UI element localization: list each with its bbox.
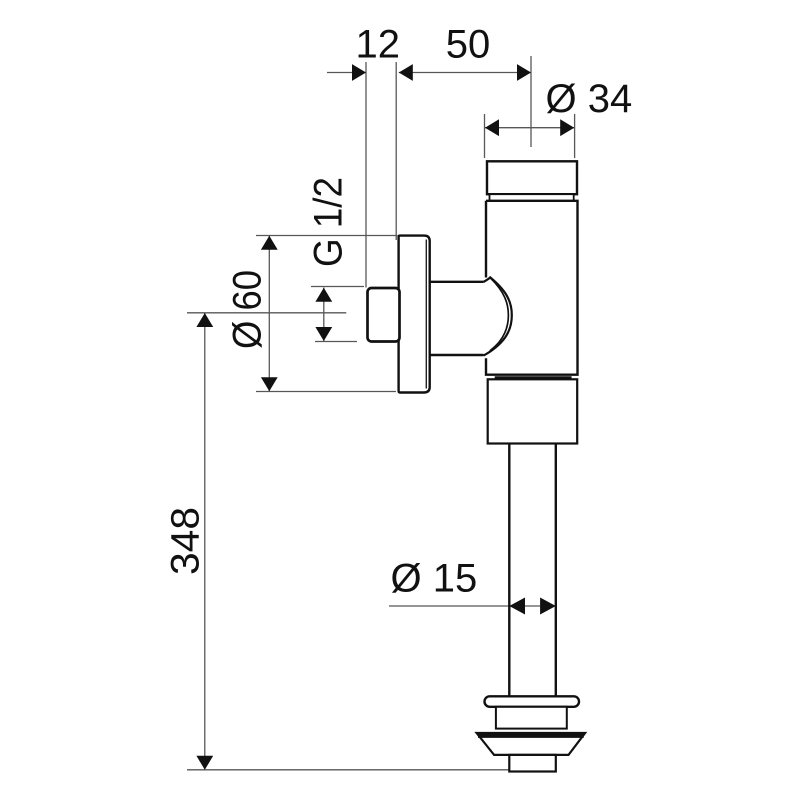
wall rosette xyxy=(399,236,430,393)
rosette face inner line xyxy=(425,240,427,389)
G 1/2 nut xyxy=(368,288,400,342)
svg-text:Ø 34: Ø 34 xyxy=(546,77,633,121)
valve lower body xyxy=(488,379,578,443)
valve top cap xyxy=(487,161,577,194)
top dimension line 12/50 xyxy=(327,72,366,74)
extension line 50 pipe centerline xyxy=(530,56,532,147)
arrow G12 up xyxy=(315,288,332,302)
arrow G12 down xyxy=(315,327,332,341)
leader line dia15 xyxy=(389,605,554,607)
arrow 348 down xyxy=(196,756,213,770)
extension line dia34 left xyxy=(484,114,486,158)
svg-text:Ø 15: Ø 15 xyxy=(391,557,478,601)
arrow dia34 right xyxy=(560,119,574,136)
inlet pipe top edge xyxy=(430,281,484,283)
svg-text:Ø 60: Ø 60 xyxy=(226,270,270,349)
extension line dia34 right xyxy=(574,114,576,158)
dimension line G12 xyxy=(323,288,325,342)
arrows (solid black) xyxy=(196,64,574,770)
lower flange dark band xyxy=(478,734,584,738)
arrow dia60 down xyxy=(261,377,278,391)
valve main body fill xyxy=(486,201,578,375)
inlet pipe bottom edge xyxy=(430,354,484,356)
extension line 348 bottom xyxy=(187,769,510,771)
dimension line 348 xyxy=(204,313,206,770)
arrow 12 left pointing right xyxy=(352,64,366,81)
dimension lines (thin gray) xyxy=(187,56,575,770)
arrow dia34 left xyxy=(485,119,499,136)
extension line 348 top inlet centerline xyxy=(187,312,346,314)
svg-text:G 1/2: G 1/2 xyxy=(307,177,351,267)
bottom stub xyxy=(509,755,556,772)
lower flange trapezoid xyxy=(477,733,585,755)
dimension line dia34 xyxy=(485,127,575,129)
arrow 50 right pointing right xyxy=(517,64,531,81)
valve main body outline xyxy=(486,201,578,375)
extension line left of 12 xyxy=(365,62,367,288)
valve cover dome outer curve xyxy=(483,277,511,355)
valve cap groove ring xyxy=(490,194,574,201)
svg-text:50: 50 xyxy=(446,23,491,67)
body seam line xyxy=(495,376,572,379)
tailpiece neck xyxy=(496,707,567,729)
extension line right of 12 xyxy=(395,62,397,240)
outlet pipe left wall xyxy=(508,444,510,697)
arrow dia15 left xyxy=(509,598,525,615)
arrow 50 left pointing left xyxy=(399,64,413,81)
svg-text:12: 12 xyxy=(356,23,401,67)
dimension line dia60 xyxy=(268,236,270,392)
svg-text:348: 348 xyxy=(164,507,208,575)
extension line G12 bottom xyxy=(315,341,357,343)
arrow 348 up xyxy=(196,313,213,327)
extension line dia60 top xyxy=(256,235,398,237)
outlet pipe right wall xyxy=(555,444,557,697)
upper flange disc xyxy=(485,696,580,707)
valve cover dome inner curve xyxy=(490,278,509,351)
extension line G12 top xyxy=(311,286,364,288)
extension line dia60 bottom xyxy=(256,391,396,393)
arrow dia60 up xyxy=(261,236,278,250)
arrow dia15 right xyxy=(540,598,556,615)
